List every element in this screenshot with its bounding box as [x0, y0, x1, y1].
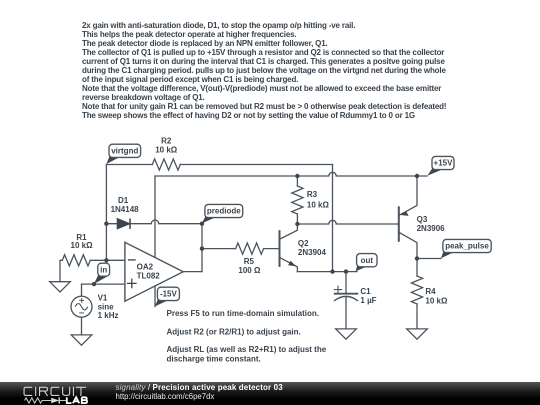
svg-text:1N4148: 1N4148 — [111, 205, 140, 214]
svg-text:TL082: TL082 — [137, 271, 161, 280]
svg-text:C1: C1 — [360, 287, 371, 296]
svg-text:V1: V1 — [98, 294, 108, 303]
svg-text:Q3: Q3 — [417, 215, 428, 224]
svg-text:R3: R3 — [307, 190, 318, 199]
svg-text:sine: sine — [98, 302, 115, 311]
svg-text:OA2: OA2 — [137, 263, 154, 272]
svg-text:R5: R5 — [244, 257, 255, 266]
svg-text:100 Ω: 100 Ω — [238, 266, 261, 275]
svg-text:R4: R4 — [425, 287, 436, 296]
svg-text:peak_pulse: peak_pulse — [445, 242, 489, 251]
svg-text:out: out — [361, 256, 374, 265]
svg-text:+15V: +15V — [434, 159, 454, 168]
svg-text:R2: R2 — [161, 136, 172, 145]
svg-text:in: in — [100, 265, 107, 274]
svg-text:10 kΩ: 10 kΩ — [425, 296, 448, 305]
svg-text:10 kΩ: 10 kΩ — [71, 241, 94, 250]
svg-text:2N3904: 2N3904 — [298, 248, 327, 257]
svg-text:10 kΩ: 10 kΩ — [307, 201, 330, 210]
svg-text:1 µF: 1 µF — [360, 296, 376, 305]
svg-text:Adjust RL (as well as R2+R1) t: Adjust RL (as well as R2+R1) to adjust t… — [167, 345, 327, 354]
svg-text:D1: D1 — [118, 196, 129, 205]
svg-text:Press F5 to run time-domain si: Press F5 to run time-domain simulation. — [167, 309, 319, 318]
svg-text:10 kΩ: 10 kΩ — [155, 146, 178, 155]
svg-text:-15V: -15V — [160, 290, 178, 299]
svg-text:Q2: Q2 — [298, 239, 309, 248]
svg-text:prediode: prediode — [207, 207, 241, 216]
svg-text:2N3906: 2N3906 — [417, 224, 446, 233]
svg-text:Adjust R2 (or R2/R1) to adjust: Adjust R2 (or R2/R1) to adjust gain. — [167, 327, 301, 336]
svg-text:discharge time constant.: discharge time constant. — [167, 355, 261, 364]
svg-text:virtgnd: virtgnd — [111, 147, 138, 156]
svg-text:1 kHz: 1 kHz — [98, 311, 119, 320]
